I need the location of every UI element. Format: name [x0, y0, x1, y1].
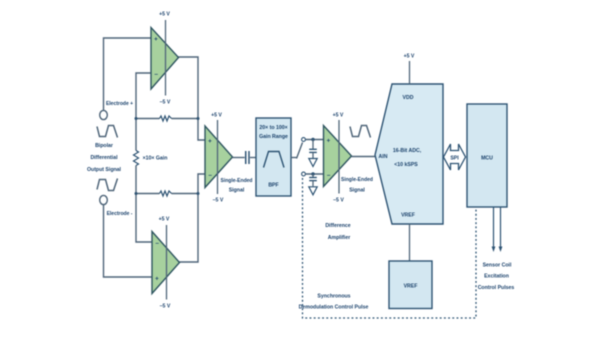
wire electrode- to op-amp A3 noninverting input	[104, 205, 153, 278]
wire capacitor to BPF	[250, 157, 256, 159]
svg-text:16-Bit ADC,: 16-Bit ADC,	[393, 148, 422, 154]
op-amp A4 supply rail line	[338, 120, 340, 194]
resistor Rg vertical gain resistor	[134, 151, 139, 166]
op-amp A1 (top input amplifier)	[151, 28, 179, 90]
resistor R2 feedback bottom	[160, 191, 172, 196]
svg-text:+5 V: +5 V	[333, 113, 344, 119]
svg-text:Excitation: Excitation	[484, 274, 509, 280]
svg-text:–: –	[208, 172, 212, 179]
op-amp A2 (single-ended stage)	[205, 126, 233, 188]
junction node row1-right	[197, 117, 200, 120]
svg-text:Output Signal: Output Signal	[87, 167, 122, 173]
svg-text:+5 V: +5 V	[159, 217, 170, 223]
svg-text:VREF: VREF	[401, 213, 415, 219]
wire BPF output to switch pole	[291, 157, 297, 159]
capacitor C2 hold top	[309, 148, 317, 150]
wire op-amp A1 output to op-amp A2 noninverting input	[178, 57, 205, 140]
svg-text:AIN: AIN	[379, 154, 388, 160]
svg-text:–: –	[327, 172, 331, 179]
block MCU	[467, 104, 507, 207]
capacitor C1 coupling	[245, 151, 247, 164]
op-amp A2 supply rail line	[217, 120, 219, 194]
svg-text:Demodulation Control Pulse: Demodulation Control Pulse	[299, 305, 369, 311]
junction node row1-left	[135, 117, 138, 120]
svg-text:VDD: VDD	[403, 95, 414, 101]
svg-text:VREF: VREF	[404, 284, 418, 290]
wire bottom throw to diff amp inverting input	[306, 173, 324, 175]
wire A2 output to coupling capacitor	[233, 157, 245, 159]
svg-text:Signal: Signal	[349, 188, 365, 194]
wire MCU excitation output 2 with arrow	[500, 207, 502, 248]
wire feedback row 2 right segment	[172, 193, 199, 195]
op-amp A1 supply rail line	[165, 20, 167, 96]
svg-text:+: +	[154, 36, 158, 43]
svg-text:Bipolar: Bipolar	[95, 143, 113, 149]
svg-text:Gain Range: Gain Range	[259, 134, 288, 140]
wire op-amp A3 output to op-amp A2 inverting input	[179, 174, 205, 262]
block VREF source	[389, 261, 432, 309]
ADC U1 16-bit pentagon block	[375, 84, 443, 224]
wire synchronous demodulation control (dashed)	[303, 178, 477, 318]
wire A4 output to ADC AIN	[352, 156, 376, 158]
junction node demod bottom	[311, 172, 314, 175]
svg-text:+5 V: +5 V	[159, 12, 170, 18]
svg-text:Electrode +: Electrode +	[106, 101, 133, 107]
svg-text:BPF: BPF	[268, 183, 278, 189]
svg-text:–5 V: –5 V	[160, 304, 171, 310]
waveform icon bipolar signal top	[97, 126, 118, 138]
waveform icon demodulated output	[350, 126, 371, 138]
wire ADC +5V supply	[409, 61, 411, 84]
electrode - terminal circle	[100, 195, 108, 204]
svg-text:×10× Gain: ×10× Gain	[143, 156, 168, 162]
svg-text:20× to 100×: 20× to 100×	[259, 125, 287, 131]
svg-text:Signal: Signal	[229, 188, 245, 194]
svg-text:–5 V: –5 V	[160, 100, 171, 106]
ground symbol top	[309, 159, 317, 167]
svg-text:MCU: MCU	[481, 156, 493, 162]
svg-text:Control Pulses: Control Pulses	[478, 285, 515, 291]
wire ADC VREF to VREF source	[409, 224, 411, 261]
wire top throw to diff amp noninverting input	[306, 139, 324, 141]
junction node demod top	[311, 138, 314, 141]
op-amp A3 (bottom input amplifier)	[152, 232, 180, 294]
wire node to capacitor C3	[312, 174, 314, 177]
svg-text:<10 kSPS: <10 kSPS	[394, 162, 418, 168]
wire electrode+ to op-amp A1 noninverting input	[104, 38, 152, 111]
svg-text:SPI: SPI	[450, 156, 459, 162]
wire feedback row 1 left segment	[136, 118, 160, 120]
op-amp A3 supply rail line	[166, 225, 168, 300]
resistor R1 feedback top	[160, 116, 172, 121]
ground symbol bottom	[309, 187, 317, 195]
svg-text:+: +	[208, 138, 212, 145]
wire gain network to op-amp A3 inverting input	[136, 166, 152, 243]
switch throw contact top	[302, 138, 306, 142]
label Bipolar Differential Output Signal	[87, 143, 122, 173]
wire capacitor C3 to ground	[312, 181, 314, 187]
svg-text:–: –	[155, 240, 159, 247]
SPI bus double arrow	[444, 144, 466, 170]
wire feedback row 1 right segment	[172, 118, 199, 120]
switch blade SW1	[297, 143, 303, 159]
svg-text:Synchronous: Synchronous	[317, 294, 350, 300]
electrode + terminal circle	[100, 110, 108, 119]
waveform icon bipolar signal bottom	[97, 179, 118, 191]
wire capacitor C2 to ground	[312, 152, 314, 158]
junction node row2-left	[135, 192, 138, 195]
bandpass filter icon	[264, 152, 285, 168]
svg-text:Electrode -: Electrode -	[107, 211, 133, 217]
junction node row2-right	[197, 192, 200, 195]
svg-text:+: +	[155, 276, 159, 283]
svg-text:Single-Ended: Single-Ended	[221, 178, 253, 184]
block BPF	[256, 118, 291, 196]
svg-text:+5 V: +5 V	[404, 54, 415, 60]
switch throw contact bottom	[302, 172, 306, 176]
svg-text:Amplifier: Amplifier	[328, 235, 350, 241]
svg-text:Sensor Coil: Sensor Coil	[483, 263, 512, 269]
svg-text:–: –	[154, 71, 158, 78]
wire MCU excitation output 1 with arrow	[493, 207, 495, 248]
svg-text:Difference: Difference	[325, 223, 350, 229]
wire op-amp A1 inverting input to gain network	[136, 73, 151, 151]
wire node to capacitor C2	[312, 140, 314, 149]
svg-text:–5 V: –5 V	[213, 198, 224, 204]
svg-text:+: +	[327, 138, 331, 145]
svg-text:Differential: Differential	[90, 155, 118, 161]
wire feedback row 2 left segment	[136, 193, 160, 195]
svg-text:Single-Ended: Single-Ended	[341, 177, 373, 183]
capacitor C3 hold bottom	[309, 177, 317, 179]
svg-text:–5 V: –5 V	[333, 198, 344, 204]
svg-text:+5 V: +5 V	[211, 113, 222, 119]
op-amp A4 difference amplifier	[324, 126, 352, 187]
